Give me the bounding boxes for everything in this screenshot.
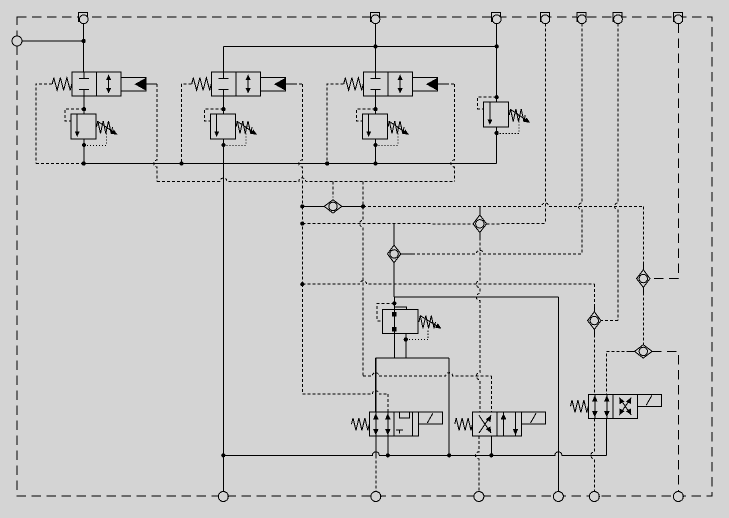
- check valve CV5: [588, 305, 601, 336]
- junction V2 spring drain / rail: [180, 161, 184, 165]
- directional valve DV3: [571, 394, 662, 418]
- junction RV3 / rail: [373, 161, 377, 165]
- wire CV2 bottom: [393, 263, 395, 297]
- check valve CV6: [628, 345, 659, 358]
- wire DV1 portA top: [375, 358, 377, 412]
- junction V1/RV1 pilot tap: [82, 107, 86, 111]
- junction RV4 pilot tap: [495, 95, 499, 99]
- junction DV2 portB / tank rail: [489, 453, 493, 457]
- pilot line CV1 to right: [363, 203, 643, 207]
- wire RV1 out: [83, 139, 85, 164]
- solenoid 2/2 valve V2: [192, 72, 286, 96]
- port P8 riser longdash: [652, 24, 678, 279]
- junction RV4 drain tap: [495, 131, 499, 135]
- pilot line V1 spring: [36, 84, 52, 164]
- pilot drop V3: [451, 84, 454, 181]
- wire CV3 top: [479, 206, 481, 215]
- junction pilot / bus2: [300, 222, 304, 226]
- pilot bus 2b: [487, 223, 546, 225]
- wire CV6 right to bottom port: [652, 351, 678, 491]
- pilot drop to CV5: [593, 284, 595, 312]
- junction top bus / P2: [373, 44, 377, 48]
- wire RV2 out to bottom port: [223, 139, 225, 492]
- tank rail: [223, 452, 606, 455]
- pilot drop V1: [154, 84, 157, 181]
- junction RV5 drain tap: [404, 337, 408, 341]
- port P6 riser: [578, 24, 582, 254]
- pilot bus 2: [302, 223, 473, 225]
- port P7 riser: [615, 24, 618, 321]
- pilot stub to CV1: [332, 182, 334, 198]
- port P6: [577, 13, 586, 24]
- junction RV1 / LS rail: [82, 161, 86, 165]
- check valve CV1: [318, 200, 349, 213]
- junction V2/RV2 pilot tap: [221, 107, 225, 111]
- junction RV5 pilot tap: [392, 301, 396, 305]
- junction node A: [82, 39, 86, 43]
- manifold left leg: [375, 358, 377, 412]
- wire CV6 left to DV3: [607, 351, 635, 394]
- solenoid 2/2 valve V3: [344, 72, 438, 96]
- pilot drop from CV1 out: [360, 206, 363, 376]
- port P7: [613, 13, 622, 24]
- wire DV2 portB bottom: [490, 436, 492, 455]
- directional valve DV1: [352, 412, 443, 436]
- relief valve RV5: [382, 309, 441, 333]
- wire CV5 to DV3: [593, 329, 595, 394]
- junction RV1 drain tap: [82, 143, 86, 147]
- wire riser port P1 to node A: [83, 22, 85, 73]
- pilot bus 3: [302, 281, 594, 285]
- wire CV1 left stub: [302, 205, 324, 207]
- wire V1 to RV1: [83, 96, 85, 114]
- relief valve RV1: [65, 109, 118, 145]
- port B1 (bottom): [218, 492, 228, 502]
- wire V2 to RV2: [223, 96, 225, 114]
- wire riser port P2: [375, 22, 377, 73]
- port P2: [371, 13, 380, 24]
- relief valve RV4: [478, 97, 531, 133]
- check valve CV4: [637, 263, 650, 294]
- port B6 (bottom): [673, 492, 683, 502]
- wire RV5 top: [393, 297, 395, 309]
- wire port T1 to node A: [22, 40, 84, 42]
- wire RV4 out to rail: [496, 127, 498, 164]
- pump drop to port B4: [557, 297, 559, 492]
- pilot line V1 solenoid: [145, 83, 157, 85]
- pilot drop V2 lower: [301, 284, 303, 394]
- wire DV3 portA bottom: [591, 418, 595, 491]
- junction DV1 portB / tank rail: [386, 453, 390, 457]
- junction manifold leg / tank rail: [447, 453, 451, 457]
- wire V3 to RV3: [375, 96, 377, 114]
- wire top bus: [224, 45, 497, 47]
- pilot bus to valve DV1: [302, 391, 388, 413]
- pilot drop V2 solenoid: [299, 84, 303, 206]
- junction pilot/CV1 line: [300, 204, 304, 208]
- junction V3 spring drain / rail: [325, 161, 329, 165]
- wire CV2 top: [393, 224, 395, 246]
- wire DV3 portB bottom: [606, 418, 608, 455]
- junction top bus / P3: [495, 44, 499, 48]
- junction pilot / bus3: [300, 282, 304, 286]
- junction tank rail left: [221, 453, 225, 457]
- pilot bus 4 (to port P6): [412, 250, 582, 253]
- wire DV2 portA bottom: [475, 436, 478, 492]
- junction CV1 out: [361, 204, 365, 208]
- pilot drop V2 continue: [301, 206, 303, 284]
- wire RV5 second top port: [394, 307, 406, 310]
- port P8: [673, 13, 682, 24]
- port B2 (bottom): [371, 492, 381, 502]
- wire CV3 bottom to valve DV2: [476, 233, 479, 413]
- pilot bus 5: [363, 373, 491, 412]
- junction RV3 drain tap: [373, 143, 377, 147]
- check valve CV3: [473, 208, 486, 239]
- relief valve RV2: [205, 109, 258, 145]
- port P5: [540, 13, 549, 24]
- pilot dotted RV5: [406, 331, 428, 340]
- wire CV2 right stub: [401, 253, 412, 255]
- wire DV1 portA bottom: [375, 436, 377, 492]
- wire RV5 out: [393, 333, 395, 358]
- port P3: [492, 13, 501, 24]
- junction V3/RV3 pilot tap: [373, 107, 377, 111]
- manifold right leg: [448, 358, 450, 455]
- relief valve RV3: [357, 109, 410, 145]
- wire LS rail dashed segment: [36, 163, 84, 165]
- wire P7 to CV5: [601, 320, 618, 322]
- pump line: [394, 296, 558, 298]
- wire riser port P3 to RV4: [496, 22, 498, 103]
- solenoid 2/2 valve V1: [52, 72, 146, 96]
- pilot bus 1: [157, 178, 454, 182]
- wire DV1 portB bottom: [387, 436, 389, 455]
- port B4 (bottom): [553, 492, 563, 502]
- pilot line V2 solenoid: [285, 83, 303, 85]
- pilot drop from bus1: [362, 182, 364, 207]
- port T1 (left): [12, 36, 22, 46]
- wire RV5 pilot port down: [405, 334, 407, 359]
- directional valve DV2: [455, 412, 546, 436]
- pilot line V2 spring: [182, 84, 192, 164]
- port B5 (bottom): [589, 492, 599, 502]
- wire CV1 right stub: [342, 205, 363, 207]
- port P5 riser: [544, 24, 546, 224]
- wire riser group2: [223, 46, 225, 72]
- junction RV2 drain tap: [221, 143, 225, 147]
- wire LS rail: [84, 163, 497, 165]
- check valve CV2: [387, 238, 400, 269]
- wire CV4 to CV6: [642, 287, 644, 344]
- pilot loop RV5: [377, 303, 394, 321]
- manifold header: [376, 357, 450, 359]
- wire chain to CV4: [642, 206, 644, 269]
- pilot line V3 spring: [327, 84, 344, 164]
- pilot line V3 solenoid: [437, 83, 455, 85]
- wire RV3 out: [375, 139, 377, 164]
- port B3 (bottom): [474, 492, 484, 502]
- port P1: [79, 13, 88, 24]
